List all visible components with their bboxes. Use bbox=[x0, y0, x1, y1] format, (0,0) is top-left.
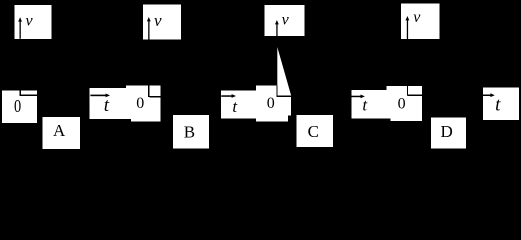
panel C : t-axis arrow bbox=[351, 95, 365, 99]
panel A : t label box bbox=[90, 88, 135, 119]
panel C : t label box bbox=[351, 90, 390, 119]
panel B : letter box bbox=[173, 115, 209, 148]
panel C : v-axis arrow bbox=[275, 20, 279, 36]
panel C : t-axis fragment under triangle bbox=[277, 96, 291, 97]
svg-text:v: v bbox=[282, 11, 290, 28]
panel B : v-axis arrow bbox=[147, 17, 151, 40]
panel A : t-axis arrow bbox=[90, 94, 110, 98]
panel D : t-axis arrow bbox=[483, 93, 495, 97]
svg-text:0: 0 bbox=[136, 95, 144, 112]
panel B : origin 0 box upper bbox=[126, 86, 160, 119]
panel D : letter box bbox=[431, 117, 466, 148]
panel B : v label box bbox=[143, 5, 181, 40]
panel B : t-axis arrow bbox=[221, 94, 236, 98]
panel A : v label box bbox=[14, 5, 51, 39]
panel C : v label box bbox=[265, 5, 305, 36]
svg-text:v: v bbox=[413, 9, 421, 26]
svg-text:D: D bbox=[440, 122, 452, 141]
svg-text:t: t bbox=[104, 95, 110, 116]
svg-text:v: v bbox=[154, 11, 162, 30]
panel A : v-axis fragment in 0 box bbox=[20, 91, 21, 97]
svg-text:t: t bbox=[495, 95, 501, 116]
panel C : white area below t-axis bbox=[256, 97, 291, 122]
panel C : filled triangle under graph line bbox=[277, 47, 291, 96]
panel D : v-axis arrow bbox=[406, 16, 410, 39]
panel D : origin 0 box upper bbox=[387, 86, 423, 119]
svg-text:0: 0 bbox=[398, 95, 406, 112]
svg-text:v: v bbox=[26, 12, 34, 29]
svg-text:A: A bbox=[53, 121, 66, 140]
panel B : origin 0 box lower bbox=[131, 86, 161, 122]
panel B : curve vertical segment in 0 box bbox=[148, 86, 149, 97]
panel B : t label box bbox=[221, 90, 256, 118]
panel D : v-axis fragment in 0 box bbox=[407, 86, 408, 96]
panel A : t-axis fragment in 0 box bbox=[20, 95, 38, 97]
panel C : letter box bbox=[296, 115, 333, 147]
panel A : origin 0 box bbox=[2, 91, 37, 123]
panel A : v-axis arrow bbox=[18, 17, 22, 39]
svg-text:0: 0 bbox=[14, 95, 21, 116]
panel D : t-axis fragment in 0 box bbox=[407, 95, 422, 96]
panel C : v-axis fragment bbox=[276, 86, 277, 97]
svg-text:B: B bbox=[184, 123, 195, 142]
panel D : origin 0 box lower bbox=[390, 86, 422, 121]
panel D : t label box bbox=[483, 88, 519, 120]
panel D : v label box bbox=[401, 4, 440, 40]
svg-text:0: 0 bbox=[267, 95, 275, 112]
panel B : t-axis fragment in 0 box bbox=[149, 96, 160, 98]
panel C : origin 0 box bbox=[256, 86, 276, 122]
panel A : letter box bbox=[43, 117, 81, 149]
svg-text:C: C bbox=[308, 122, 319, 141]
